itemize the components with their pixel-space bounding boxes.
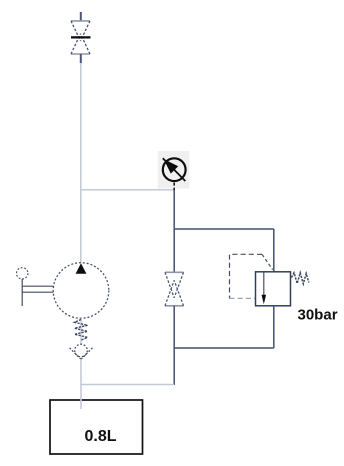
pressure gauge G1 background square: [158, 151, 190, 189]
svg-text:30bar: 30bar: [298, 307, 338, 324]
relief valve pilot line (dashed): [230, 254, 273, 298]
wire: main vertical line from V1 to pump P1: [80, 63, 82, 263]
wire: vertical from gauge junction down to valve V2: [173, 190, 175, 272]
wire: stub below V1: [80, 54, 82, 63]
wire: bottom branch back to valve line: [174, 347, 274, 349]
wire: below V2 down to bottom junction: [173, 306, 175, 385]
relief valve spring: [292, 273, 309, 284]
pump P1 (hand pump) body: [53, 263, 109, 319]
pump flow triangle: [76, 263, 87, 274]
tank T1: [50, 400, 143, 454]
lever handle knob: [17, 268, 28, 279]
relief valve RV1 body: [256, 272, 291, 306]
shut-off valve V1 (closed): [71, 21, 90, 54]
lever arm: [22, 279, 53, 306]
svg-text:0.8L: 0.8L: [85, 428, 117, 445]
gauge connection stub: [173, 183, 175, 191]
wire: inlet stub above shut-off valve V1: [80, 12, 82, 21]
closed-position crossbar on V1: [71, 36, 91, 38]
check valve CV1: [69, 344, 92, 359]
wire: check valve to tank: [80, 359, 82, 409]
pressure gauge G1: [163, 158, 186, 181]
wire: pump outlet through spring to check valve: [80, 318, 82, 344]
wire: horizontal branch to pressure gauge: [81, 189, 174, 191]
wire: right vertical down to relief valve inlet: [273, 229, 275, 272]
relief valve flow-path arrow: [262, 272, 267, 304]
wire: top branch to relief valve: [174, 228, 274, 230]
wire: bottom horizontal from valve branch to tank line: [81, 384, 174, 386]
wire: relief valve outlet down: [273, 306, 275, 348]
pump return spring: [75, 320, 88, 341]
shut-off valve V2: [165, 272, 184, 306]
